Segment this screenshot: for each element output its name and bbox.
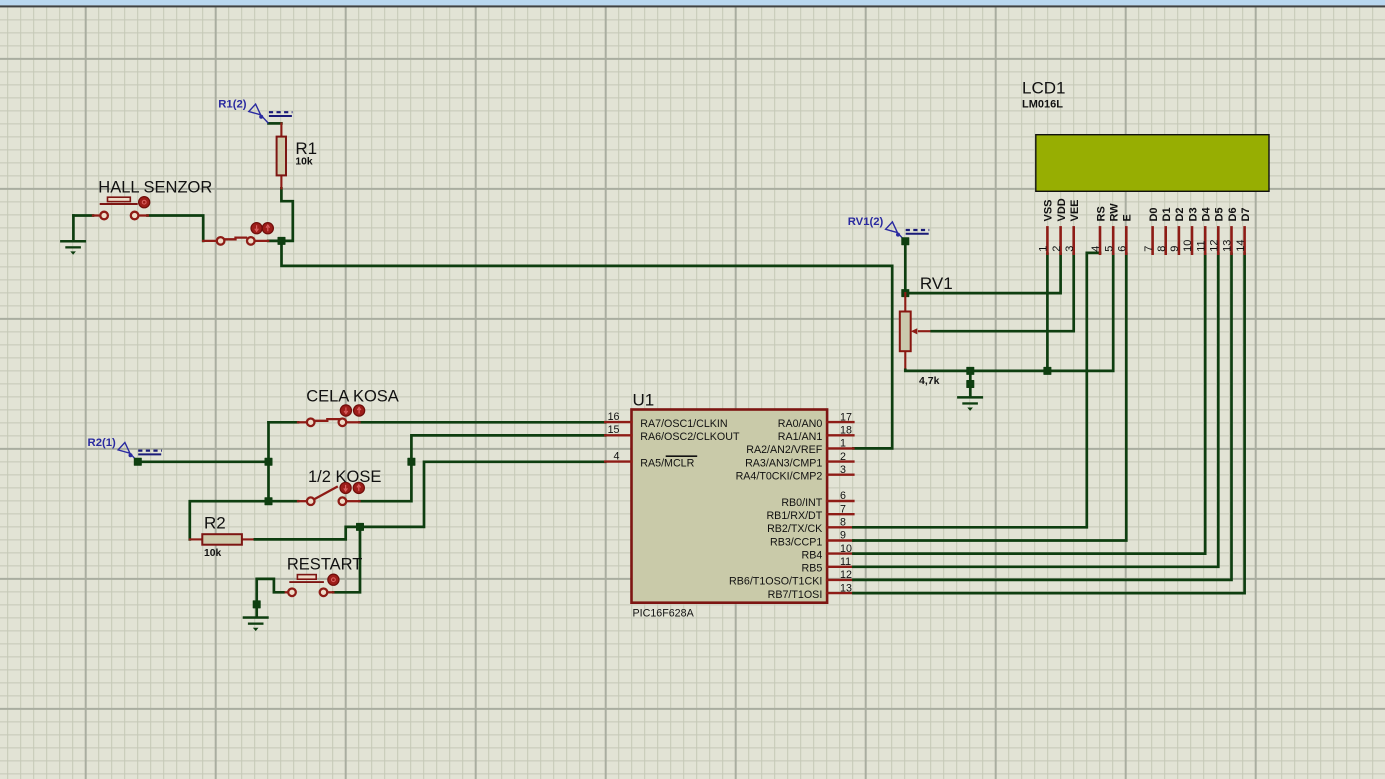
pin 5 (RW) LCD (1103, 203, 1120, 254)
ground (60, 216, 93, 255)
svg-text:VDD: VDD (1056, 198, 1068, 221)
pin 6 (RB0/INT) (781, 490, 853, 509)
svg-text:RB3/CCP1: RB3/CCP1 (770, 536, 822, 548)
svg-text:RA5/MCLR: RA5/MCLR (640, 457, 694, 469)
wire: CELA KOSA right to RA7 pin16 (360, 421, 606, 424)
svg-text:2: 2 (1051, 246, 1063, 252)
value label 10k (R2) (204, 548, 221, 559)
node: R1 bottom net jog (278, 188, 293, 245)
potentiometer RV1 (900, 293, 932, 370)
svg-text:15: 15 (608, 424, 620, 436)
svg-text:16: 16 (608, 411, 620, 423)
svg-text:5: 5 (1103, 246, 1115, 252)
pin 10 (D3) LCD (1182, 207, 1199, 253)
svg-text:PIC16F628A: PIC16F628A (633, 608, 695, 620)
wire (138, 458, 273, 466)
label R1 (295, 139, 317, 158)
svg-text:R1(2): R1(2) (218, 98, 246, 110)
svg-text:9: 9 (840, 530, 846, 542)
svg-text:9: 9 (1169, 246, 1181, 252)
svg-text:4,7k: 4,7k (919, 375, 940, 387)
svg-text:13: 13 (1222, 240, 1234, 252)
svg-text:RA1/AN1: RA1/AN1 (778, 431, 823, 443)
svg-text:3: 3 (1064, 246, 1076, 252)
svg-text:RV1(2): RV1(2) (848, 216, 884, 228)
svg-text:7: 7 (1143, 246, 1155, 252)
label R2 (204, 513, 226, 532)
pin 8 (D1) LCD (1156, 207, 1173, 253)
svg-text:RV1: RV1 (920, 274, 953, 293)
svg-text:8: 8 (1156, 246, 1168, 252)
svg-text:RA3/AN3/CMP1: RA3/AN3/CMP1 (745, 457, 822, 469)
svg-text:CELA KOSA: CELA KOSA (306, 388, 399, 406)
svg-text:RA2/AN2/VREF: RA2/AN2/VREF (746, 444, 822, 456)
svg-text:D0: D0 (1148, 207, 1160, 221)
svg-text:1/2 KOSE: 1/2 KOSE (308, 468, 381, 486)
svg-text:RS: RS (1095, 206, 1107, 221)
ground (243, 616, 269, 631)
pin 11 (D4) LCD (1195, 207, 1212, 254)
wire: RB5 to D5 (853, 254, 1218, 567)
wire: RV1 bottom rail to RW (905, 254, 1113, 375)
svg-text:RB0/INT: RB0/INT (781, 497, 822, 509)
svg-text:18: 18 (840, 425, 852, 437)
wire: VSS down (1046, 254, 1049, 371)
svg-text:10: 10 (840, 543, 852, 555)
pin 11 (RB5) (802, 556, 854, 575)
label 1/2 KOSE (308, 468, 381, 486)
label U1 (633, 391, 655, 410)
pin 14 (D7) LCD (1235, 207, 1252, 253)
svg-text:R1: R1 (295, 139, 317, 158)
svg-text:11: 11 (1195, 240, 1207, 251)
wire: RB4 to D4 (853, 254, 1205, 554)
svg-text:RB5: RB5 (802, 563, 823, 575)
button HALL SENZOR (93, 197, 150, 220)
svg-text:RESTART: RESTART (287, 555, 362, 573)
svg-text:VSS: VSS (1043, 199, 1055, 221)
svg-text:E: E (1122, 214, 1134, 221)
svg-text:U1: U1 (633, 391, 655, 410)
wire (148, 216, 204, 241)
svg-text:R2(1): R2(1) (88, 437, 116, 449)
pin 4 (RA5/MCLR) (605, 450, 697, 469)
svg-text:10: 10 (1182, 240, 1194, 252)
svg-text:D1: D1 (1161, 207, 1173, 221)
pin 3 (VEE) LCD (1064, 199, 1081, 253)
wire: RB3 to E (853, 254, 1126, 541)
wire: RB6 to D6 (853, 254, 1231, 580)
wire: wiper to LCD VEE (932, 254, 1074, 332)
label HALL SENZOR (98, 179, 212, 197)
pin 9 (D2) LCD (1169, 207, 1186, 253)
label RV1(2) (848, 216, 930, 241)
label PIC16F628A (633, 608, 695, 620)
pin 17 (RA0/AN0) (778, 411, 854, 430)
label CELA KOSA (306, 388, 399, 406)
svg-text:D4: D4 (1201, 207, 1213, 222)
label R2(1) (88, 437, 162, 462)
wire: RB7 to D7 (853, 254, 1244, 593)
switch 1/2 KOSE (298, 482, 364, 505)
pin 13 (RB7/T1OSI) (768, 582, 854, 601)
pin 2 (VDD) LCD (1051, 198, 1068, 253)
wire: vertical branch to switches (265, 422, 273, 505)
IC U1 PIC16F628A body (632, 410, 828, 603)
svg-text:14: 14 (1235, 240, 1247, 252)
pin 7 (D0) LCD (1143, 207, 1160, 253)
svg-text:D6: D6 (1227, 207, 1239, 221)
pin 2 (RA3/AN3/CMP1) (745, 451, 853, 470)
svg-text:RB6/T1OSO/T1CKI: RB6/T1OSO/T1CKI (729, 576, 822, 588)
wire: R2 right to RA5 pin4 (255, 462, 605, 540)
resistor R1 (277, 123, 286, 188)
pin 10 (RB4) (802, 543, 854, 562)
pin 4 (RS) LCD (1090, 206, 1107, 253)
svg-text:RA6/OSC2/CLKOUT: RA6/OSC2/CLKOUT (640, 431, 740, 443)
label RESTART (287, 555, 362, 573)
svg-text:D3: D3 (1187, 207, 1199, 221)
node RV1 top (901, 237, 909, 297)
resistor R2 (190, 534, 255, 545)
button RESTART (283, 574, 339, 596)
pin 12 (RB6/T1OSO/T1CKI) (729, 569, 853, 588)
pin 7 (RB1/RX/DT) (766, 503, 853, 522)
svg-text:13: 13 (840, 582, 852, 594)
svg-text:RB1/RX/DT: RB1/RX/DT (766, 510, 822, 522)
switch SW-HALL contact (203, 223, 273, 245)
svg-text:4: 4 (614, 450, 620, 462)
svg-text:2: 2 (840, 451, 846, 463)
pin 1 (VSS) LCD (1038, 199, 1055, 253)
svg-text:RA7/OSC1/CLKIN: RA7/OSC1/CLKIN (640, 418, 727, 430)
svg-text:RA0/AN0: RA0/AN0 (778, 418, 823, 430)
svg-text:RB4: RB4 (802, 549, 823, 561)
wire: CELA KOSA left (269, 421, 299, 424)
svg-text:1: 1 (840, 438, 846, 450)
svg-text:LCD1: LCD1 (1022, 79, 1065, 98)
switch CELA KOSA (298, 405, 365, 426)
wire: R1 top (269, 122, 282, 125)
svg-text:VEE: VEE (1069, 199, 1081, 221)
value label 10k (R1) (295, 157, 312, 168)
svg-text:17: 17 (840, 411, 852, 423)
label R1(2) (218, 98, 292, 123)
svg-text:RW: RW (1109, 203, 1121, 222)
svg-text:12: 12 (840, 569, 852, 581)
svg-text:12: 12 (1209, 240, 1221, 252)
svg-text:8: 8 (840, 517, 846, 529)
svg-text:6: 6 (1117, 246, 1129, 252)
wire: RB2 to RS (853, 253, 1100, 527)
label LCD1 (1022, 79, 1065, 98)
svg-text:LM016L: LM016L (1022, 98, 1063, 110)
wire: 1/2 KOSE right, up to RA6 pin15 (360, 435, 606, 501)
pin 13 (D6) LCD (1222, 207, 1239, 253)
svg-text:10k: 10k (295, 157, 312, 168)
svg-text:RB2/TX/CK: RB2/TX/CK (767, 523, 823, 535)
LCD LM016L screen (1036, 135, 1269, 192)
svg-text:HALL SENZOR: HALL SENZOR (98, 179, 212, 197)
svg-text:R2: R2 (204, 513, 226, 532)
pin 12 (D5) LCD (1209, 207, 1226, 253)
svg-text:D7: D7 (1240, 207, 1252, 221)
pin 3 (RA4/T0CKI/CMP2) (736, 464, 854, 483)
svg-text:3: 3 (840, 464, 846, 476)
wire (268, 240, 281, 243)
wire: long net to RA2 (282, 241, 893, 449)
node R2(1) (134, 458, 142, 466)
pin 16 (RA7/OSC1/CLKIN) (605, 411, 727, 430)
svg-text:6: 6 (840, 490, 846, 502)
label LM016L (1022, 98, 1063, 110)
svg-text:D2: D2 (1174, 207, 1186, 221)
svg-text:7: 7 (840, 503, 846, 515)
ground (957, 396, 983, 411)
pin 1 (RA2/AN2/VREF) (746, 438, 853, 457)
value label 4,7k (919, 375, 940, 387)
pin 9 (RB3/CCP1) (770, 530, 853, 549)
svg-text:4: 4 (1090, 246, 1102, 252)
svg-text:10k: 10k (204, 548, 221, 559)
wire: rail to ground (966, 371, 974, 396)
wire: RESTART branch (333, 527, 360, 592)
pin 8 (RB2/TX/CK) (767, 517, 853, 536)
pin 18 (RA1/AN1) (778, 425, 854, 444)
wire: 1/2 KOSE left (190, 501, 298, 539)
wire: RESTART to ground (253, 579, 284, 616)
pin 15 (RA6/OSC2/CLKOUT) (605, 424, 740, 443)
svg-text:D5: D5 (1214, 207, 1226, 221)
svg-text:RA4/T0CKI/CMP2: RA4/T0CKI/CMP2 (736, 471, 823, 483)
wire: to LCD VDD (905, 254, 1060, 293)
svg-text:11: 11 (840, 556, 851, 568)
svg-text:RB7/T1OSI: RB7/T1OSI (768, 589, 823, 601)
pin 6 (E) LCD (1117, 214, 1134, 254)
svg-text:1: 1 (1038, 246, 1050, 252)
label RV1 (920, 274, 953, 293)
